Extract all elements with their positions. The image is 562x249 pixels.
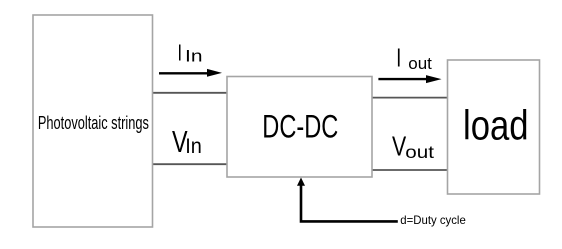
svg-text:I: I [396, 42, 401, 72]
svg-text:I: I [178, 40, 183, 66]
svg-text:In: In [185, 48, 203, 66]
svg-text:In: In [185, 134, 202, 158]
svg-text:out: out [405, 142, 434, 162]
svg-text:DC-DC: DC-DC [262, 109, 338, 145]
svg-text:d=Duty cycle: d=Duty cycle [400, 213, 466, 227]
svg-text:out: out [408, 55, 432, 73]
svg-text:V: V [392, 130, 406, 162]
svg-text:Photovoltaic strings: Photovoltaic strings [38, 112, 149, 133]
svg-text:load: load [463, 102, 529, 149]
